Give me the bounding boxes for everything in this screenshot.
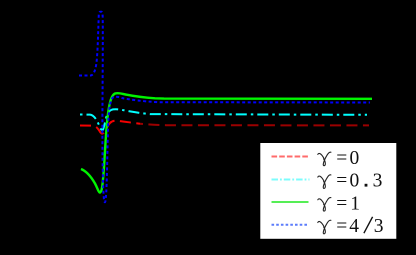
svg-text:0: 0	[350, 171, 360, 192]
svg-text:3: 3	[373, 171, 383, 192]
svg-text:4: 4	[349, 216, 359, 237]
svg-text:1: 1	[350, 193, 360, 214]
svg-text:0: 0	[350, 148, 360, 169]
svg-text:3: 3	[374, 216, 384, 237]
svg-text:=: =	[336, 148, 347, 169]
